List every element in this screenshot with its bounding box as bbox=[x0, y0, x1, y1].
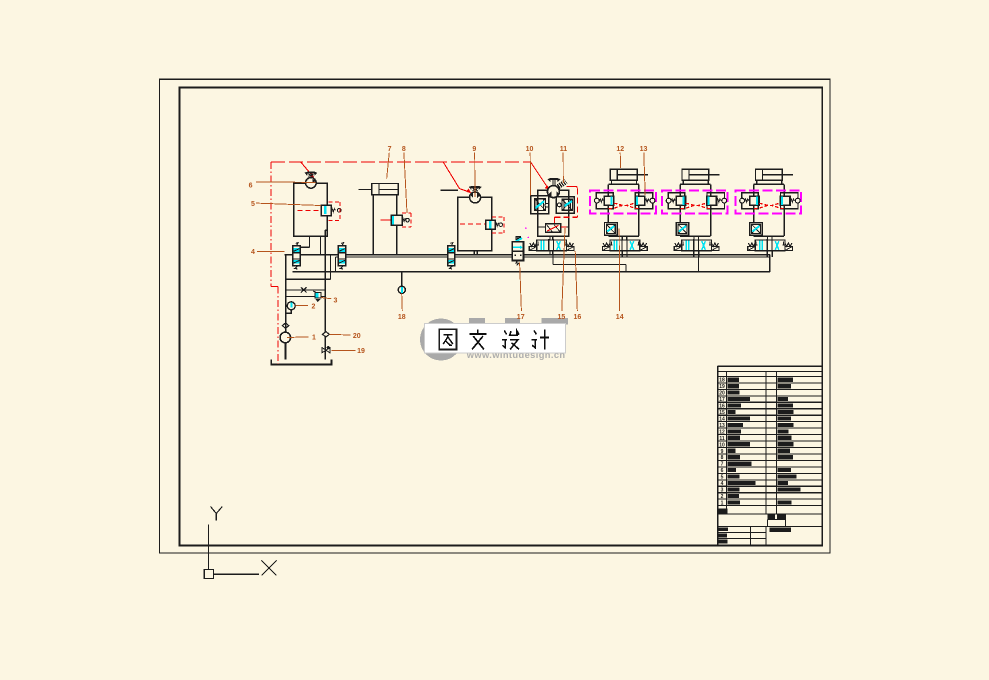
svg-text:14: 14 bbox=[719, 417, 725, 423]
svg-text:14: 14 bbox=[616, 314, 624, 321]
svg-text:7: 7 bbox=[388, 146, 392, 153]
svg-text:6: 6 bbox=[721, 468, 724, 474]
svg-text:5: 5 bbox=[721, 475, 724, 481]
svg-text:11: 11 bbox=[719, 436, 725, 442]
svg-text:2: 2 bbox=[312, 304, 316, 311]
svg-text:3: 3 bbox=[334, 297, 338, 304]
svg-text:18: 18 bbox=[398, 314, 406, 321]
svg-text:19: 19 bbox=[719, 384, 725, 390]
svg-text:15: 15 bbox=[719, 410, 725, 416]
svg-text:16: 16 bbox=[574, 314, 582, 321]
svg-text:6: 6 bbox=[249, 182, 253, 189]
svg-text:1: 1 bbox=[721, 500, 724, 506]
svg-text:5: 5 bbox=[251, 201, 255, 208]
svg-text:4: 4 bbox=[721, 481, 724, 487]
svg-text:2: 2 bbox=[721, 494, 724, 500]
svg-text:10: 10 bbox=[719, 442, 725, 448]
svg-text:9: 9 bbox=[721, 449, 724, 455]
svg-text:8: 8 bbox=[402, 146, 406, 153]
svg-text:12: 12 bbox=[616, 146, 624, 153]
svg-text:20: 20 bbox=[719, 391, 725, 397]
svg-text:13: 13 bbox=[719, 423, 725, 429]
svg-text:15: 15 bbox=[558, 314, 566, 321]
svg-text:10: 10 bbox=[526, 146, 534, 153]
svg-text:20: 20 bbox=[353, 333, 361, 340]
svg-text:11: 11 bbox=[560, 146, 568, 153]
svg-text:7: 7 bbox=[721, 462, 724, 468]
svg-text:12: 12 bbox=[719, 429, 725, 435]
svg-text:3: 3 bbox=[721, 488, 724, 494]
svg-text:1: 1 bbox=[312, 335, 316, 342]
svg-text:17: 17 bbox=[719, 397, 725, 403]
svg-text:13: 13 bbox=[640, 146, 648, 153]
svg-text:9: 9 bbox=[472, 146, 476, 153]
svg-text:4: 4 bbox=[251, 249, 255, 256]
svg-text:17: 17 bbox=[517, 314, 525, 321]
svg-text:19: 19 bbox=[357, 348, 365, 355]
svg-text:18: 18 bbox=[719, 378, 725, 384]
svg-text:8: 8 bbox=[721, 455, 724, 461]
svg-text:16: 16 bbox=[719, 404, 725, 410]
